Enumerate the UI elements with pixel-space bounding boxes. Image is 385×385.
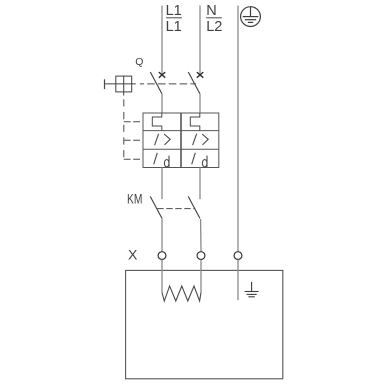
breaker Q pole 2 contact x — [197, 72, 204, 78]
svg-text:N: N — [206, 3, 216, 19]
terminal X1 — [158, 252, 166, 260]
label I> pole 1 — [155, 134, 171, 145]
load box (heater enclosure) — [126, 270, 283, 378]
svg-text:Q: Q — [135, 56, 143, 68]
svg-text:KM: KM — [127, 191, 142, 207]
dashed link to thermal trip row — [124, 121, 143, 123]
protective earth symbol (circled PE) — [241, 7, 261, 27]
heating element resistor — [162, 286, 201, 301]
breaker Q pole 1 blade — [150, 72, 162, 94]
wire terminal X1 into box — [161, 260, 163, 293]
wire trip block to KM pole 1 — [161, 168, 163, 200]
wire trip block to KM pole 2 — [199, 168, 201, 200]
wire terminal X3 (PE) into box — [237, 260, 239, 301]
KM dashed mechanical link — [157, 208, 195, 210]
label I> pole 2 — [193, 134, 209, 145]
operating mechanism square — [105, 76, 136, 95]
thermal element pole 1 — [152, 113, 162, 131]
breaker Q pole 1 contact x — [159, 72, 166, 78]
wire Q pole 2 to trip block — [199, 94, 201, 113]
mechanism end tick — [104, 79, 106, 89]
label L1/L1 — [166, 3, 182, 35]
dashed mechanical link horizontal to Q poles — [140, 83, 196, 85]
svg-text:L2: L2 — [206, 19, 222, 35]
svg-text:L1: L1 — [166, 3, 182, 19]
KM pole 1 blade — [150, 196, 162, 218]
dashed mechanical link vertical to trip block — [123, 99, 125, 159]
wire feeder N — [199, 6, 201, 75]
terminal X3 — [234, 252, 242, 260]
label Id pole 1 — [154, 153, 169, 167]
breaker Q pole 2 blade — [188, 72, 200, 94]
wire feeder PE — [237, 6, 239, 252]
dashed link to differential trip row — [124, 158, 143, 160]
dashed link to magnetic trip row — [124, 139, 143, 141]
wire KM pole 1 to terminal — [161, 218, 163, 251]
label N/L2 — [206, 3, 222, 35]
earth symbol in box — [245, 282, 259, 297]
thermal element pole 2 — [190, 113, 200, 131]
wire terminal X2 into box — [200, 260, 202, 293]
label Id pole 2 — [192, 153, 207, 167]
terminal X2 — [197, 252, 205, 260]
wire KM pole 2 to terminal — [200, 219, 202, 252]
KM pole 2 blade — [188, 196, 200, 218]
wire Q pole 1 to trip block — [161, 94, 163, 113]
svg-text:L1: L1 — [166, 19, 182, 35]
trip unit block outline — [143, 113, 219, 168]
svg-text:X: X — [128, 247, 138, 263]
wire feeder L1 — [161, 6, 163, 75]
